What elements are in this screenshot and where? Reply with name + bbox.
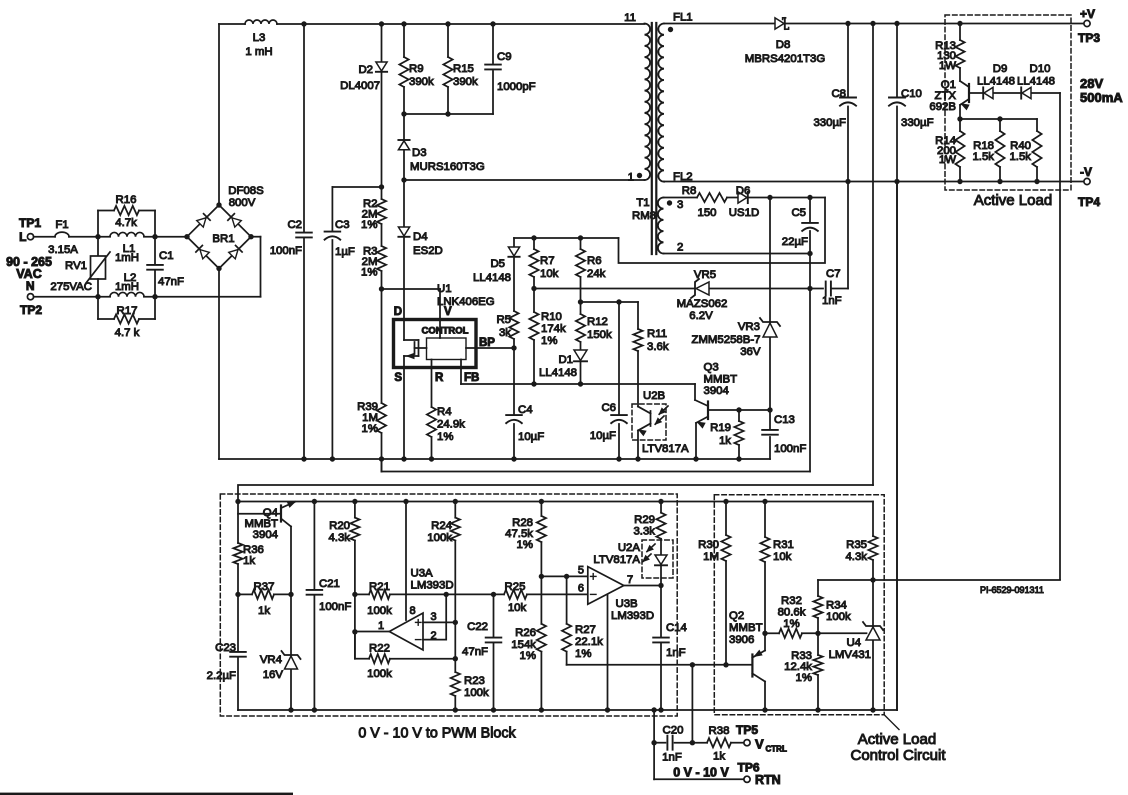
svg-text:1: 1: [378, 620, 384, 632]
svg-text:16V: 16V: [263, 669, 284, 681]
svg-text:L3: L3: [253, 32, 266, 44]
svg-text:S: S: [394, 372, 402, 384]
svg-text:80.6k: 80.6k: [778, 607, 806, 619]
svg-text:3.15A: 3.15A: [48, 244, 78, 256]
svg-text:D: D: [394, 306, 402, 318]
svg-text:3k: 3k: [499, 327, 511, 339]
svg-text:1 mH: 1 mH: [245, 46, 272, 58]
svg-text:C2: C2: [287, 219, 302, 231]
svg-text:D1: D1: [558, 354, 573, 366]
svg-text:C22: C22: [467, 621, 488, 633]
svg-text:2: 2: [431, 630, 437, 642]
svg-text:RM8: RM8: [632, 210, 656, 222]
svg-text:Active Load: Active Load: [974, 192, 1052, 209]
svg-text:D4: D4: [413, 231, 428, 243]
svg-text:3904: 3904: [704, 385, 729, 397]
svg-text:R11: R11: [647, 328, 667, 340]
svg-text:TP2: TP2: [20, 303, 42, 317]
svg-text:MAZS062: MAZS062: [677, 298, 728, 310]
svg-text:C8: C8: [831, 88, 846, 100]
svg-text:1k: 1k: [243, 555, 255, 567]
svg-text:275VAC: 275VAC: [50, 281, 92, 293]
svg-text:R31: R31: [773, 539, 794, 551]
svg-text:R35: R35: [846, 539, 867, 551]
svg-text:10k: 10k: [508, 602, 527, 614]
svg-text:VR3: VR3: [738, 321, 760, 333]
svg-text:R20: R20: [329, 520, 350, 532]
svg-text:D10: D10: [1030, 63, 1051, 75]
svg-text:28V: 28V: [1080, 76, 1103, 91]
svg-text:R23: R23: [464, 675, 485, 687]
svg-text:R27: R27: [575, 624, 596, 636]
svg-text:330µF: 330µF: [813, 117, 846, 129]
svg-text:TP5: TP5: [736, 723, 758, 737]
svg-text:U3B: U3B: [616, 598, 638, 610]
svg-text:36V: 36V: [740, 346, 761, 358]
svg-text:D5: D5: [490, 258, 505, 270]
svg-text:TP4: TP4: [1078, 195, 1100, 209]
svg-text:1µF: 1µF: [335, 246, 355, 258]
svg-text:100k: 100k: [367, 668, 392, 680]
svg-text:R22: R22: [369, 643, 390, 655]
svg-text:C3: C3: [335, 219, 350, 231]
svg-text:R19: R19: [710, 422, 731, 434]
svg-text:F1: F1: [55, 219, 68, 231]
svg-text:U1: U1: [437, 283, 452, 295]
svg-text:1%: 1%: [437, 431, 453, 443]
svg-text:2.2µF: 2.2µF: [207, 670, 236, 682]
svg-text:MMBT: MMBT: [729, 622, 763, 634]
svg-text:PI-6529-091311: PI-6529-091311: [980, 585, 1044, 595]
svg-text:U2B: U2B: [643, 390, 665, 402]
svg-text:RTN: RTN: [755, 773, 781, 787]
svg-text:U3A: U3A: [411, 568, 434, 580]
svg-text:100nF: 100nF: [319, 601, 351, 613]
svg-text:FB: FB: [464, 372, 479, 384]
svg-text:692B: 692B: [929, 101, 956, 113]
svg-text:C4: C4: [518, 404, 533, 416]
svg-text:4.7 k: 4.7 k: [115, 327, 140, 339]
svg-text:R34: R34: [826, 600, 847, 612]
svg-text:1%: 1%: [361, 219, 377, 231]
svg-text:DL4007: DL4007: [340, 80, 380, 92]
svg-text:800V: 800V: [229, 197, 256, 209]
svg-text:4.3k: 4.3k: [845, 551, 867, 563]
svg-text:24.9k: 24.9k: [437, 419, 465, 431]
svg-text:R10: R10: [541, 311, 562, 323]
svg-text:6.2V: 6.2V: [689, 310, 713, 322]
svg-text:100nF: 100nF: [774, 443, 806, 455]
svg-text:MURS160T3G: MURS160T3G: [410, 161, 485, 173]
svg-text:Q2: Q2: [729, 610, 744, 622]
svg-text:1k: 1k: [713, 751, 725, 763]
svg-text:D2: D2: [358, 64, 373, 76]
svg-text:1.5k: 1.5k: [1009, 151, 1031, 163]
svg-text:TP1: TP1: [19, 216, 41, 230]
svg-text:+V: +V: [1080, 7, 1095, 21]
svg-text:L: L: [19, 230, 26, 244]
svg-text:V: V: [755, 737, 764, 752]
svg-text:100k: 100k: [427, 532, 452, 544]
svg-text:1.5k: 1.5k: [972, 151, 994, 163]
svg-text:1%: 1%: [517, 539, 533, 551]
svg-text:1%: 1%: [575, 648, 591, 660]
svg-text:FL1: FL1: [673, 12, 693, 24]
svg-text:1M: 1M: [703, 551, 719, 563]
svg-text:R: R: [435, 372, 444, 384]
svg-text:D3: D3: [412, 147, 427, 159]
svg-text:D9: D9: [993, 63, 1008, 75]
svg-text:1%: 1%: [362, 423, 378, 435]
svg-text:U4: U4: [846, 637, 861, 649]
svg-text:R4: R4: [437, 406, 452, 418]
svg-text:R38: R38: [709, 725, 730, 737]
svg-text:2: 2: [677, 242, 683, 254]
svg-text:330µF: 330µF: [901, 117, 934, 129]
svg-text:LM393D: LM393D: [411, 580, 454, 592]
svg-text:LL4148: LL4148: [539, 367, 577, 379]
svg-text:10k: 10k: [540, 268, 559, 280]
svg-text:1W: 1W: [939, 60, 956, 72]
svg-text:R12: R12: [587, 316, 608, 328]
svg-text:R9: R9: [409, 63, 424, 75]
svg-text:1%: 1%: [361, 267, 377, 279]
svg-text:LMV431: LMV431: [829, 649, 871, 661]
svg-text:100k: 100k: [464, 687, 489, 699]
svg-text:C7: C7: [826, 268, 841, 280]
svg-text:1%: 1%: [541, 335, 557, 347]
svg-text:10µF: 10µF: [590, 430, 616, 442]
svg-text:3904: 3904: [253, 529, 278, 541]
svg-text:6: 6: [578, 583, 584, 595]
svg-text:100k: 100k: [367, 605, 392, 617]
svg-text:390k: 390k: [409, 76, 434, 88]
svg-text:LNK406EG: LNK406EG: [437, 296, 495, 308]
svg-text:0 V - 10 V: 0 V - 10 V: [673, 766, 729, 780]
svg-text:R7: R7: [540, 255, 555, 267]
svg-text:ES2D: ES2D: [413, 245, 443, 257]
svg-text:RV1: RV1: [65, 260, 87, 272]
svg-text:C5: C5: [791, 207, 806, 219]
svg-text:3: 3: [677, 199, 683, 211]
svg-text:1k: 1k: [258, 605, 270, 617]
svg-text:22.1k: 22.1k: [575, 636, 603, 648]
svg-text:LL4148: LL4148: [977, 76, 1015, 88]
svg-text:C10: C10: [901, 88, 922, 100]
svg-text:C14: C14: [666, 622, 687, 634]
svg-text:1%: 1%: [520, 650, 536, 662]
svg-text:R37: R37: [254, 581, 275, 593]
svg-text:C9: C9: [497, 51, 512, 63]
svg-text:R25: R25: [505, 581, 526, 593]
svg-text:R29: R29: [634, 514, 655, 526]
svg-text:3.3k: 3.3k: [633, 526, 655, 538]
svg-text:0 V - 10 V to PWM Block: 0 V - 10 V to PWM Block: [358, 726, 516, 742]
svg-text:US1D: US1D: [729, 207, 759, 219]
svg-text:1nF: 1nF: [662, 752, 682, 764]
svg-text:VR5: VR5: [694, 269, 716, 281]
svg-text:MMBT: MMBT: [704, 374, 738, 386]
svg-text:TP3: TP3: [1078, 31, 1100, 45]
svg-text:C23: C23: [215, 642, 236, 654]
svg-text:100nF: 100nF: [270, 245, 302, 257]
svg-text:390k: 390k: [453, 76, 478, 88]
svg-text:1: 1: [628, 172, 634, 184]
svg-text:R6: R6: [587, 255, 602, 267]
svg-text:7: 7: [627, 574, 633, 586]
svg-text:1%: 1%: [783, 618, 799, 630]
svg-text:BR1: BR1: [212, 233, 234, 245]
svg-text:C20: C20: [663, 725, 684, 737]
svg-text:D8: D8: [776, 39, 791, 51]
svg-text:1mH: 1mH: [115, 252, 139, 264]
svg-text:4.3k: 4.3k: [328, 532, 350, 544]
svg-text:Control Circuit: Control Circuit: [850, 747, 946, 764]
svg-text:1nF: 1nF: [666, 647, 686, 659]
svg-text:ZMM5258B-7: ZMM5258B-7: [691, 334, 760, 346]
svg-text:1k: 1k: [719, 435, 731, 447]
svg-text:Active Load: Active Load: [858, 731, 936, 748]
svg-text:D6: D6: [736, 185, 751, 197]
svg-text:LM393D: LM393D: [611, 610, 654, 622]
svg-text:LTV817A: LTV817A: [593, 554, 640, 566]
svg-text:R5: R5: [496, 314, 511, 326]
svg-text:22µF: 22µF: [782, 236, 808, 248]
svg-text:C21: C21: [319, 578, 340, 590]
svg-text:MBRS4201T3G: MBRS4201T3G: [745, 53, 826, 65]
svg-text:150: 150: [697, 207, 716, 219]
svg-text:3: 3: [431, 611, 437, 623]
svg-text:R30: R30: [698, 539, 719, 551]
svg-text:500mA: 500mA: [1080, 90, 1123, 105]
svg-text:150k: 150k: [587, 329, 612, 341]
svg-text:24k: 24k: [587, 268, 606, 280]
svg-text:5: 5: [578, 565, 584, 577]
svg-text:10k: 10k: [773, 551, 792, 563]
svg-text:VR4: VR4: [260, 654, 282, 666]
svg-text:-V: -V: [1080, 165, 1092, 179]
svg-text:174k: 174k: [541, 323, 566, 335]
svg-text:C1: C1: [159, 250, 174, 262]
svg-text:C13: C13: [774, 414, 795, 426]
svg-text:R17: R17: [117, 305, 138, 317]
svg-text:Q3: Q3: [704, 362, 719, 374]
svg-text:47nF: 47nF: [462, 646, 488, 658]
svg-text:LL4148: LL4148: [1017, 76, 1055, 88]
svg-text:R16: R16: [116, 194, 137, 206]
svg-text:N: N: [26, 279, 35, 293]
svg-text:1nF: 1nF: [822, 295, 842, 307]
svg-text:1mH: 1mH: [115, 281, 139, 293]
svg-text:C6: C6: [601, 402, 616, 414]
svg-text:R24: R24: [431, 520, 452, 532]
svg-text:T1: T1: [636, 197, 649, 209]
svg-text:CTRL: CTRL: [766, 745, 787, 754]
svg-text:8: 8: [409, 605, 415, 617]
svg-text:11: 11: [624, 12, 636, 24]
svg-text:R26: R26: [515, 627, 536, 639]
svg-text:47nF: 47nF: [158, 276, 184, 288]
svg-text:CONTROL: CONTROL: [422, 326, 469, 337]
svg-text:R15: R15: [453, 63, 474, 75]
svg-text:10µF: 10µF: [518, 431, 544, 443]
svg-text:4.7k: 4.7k: [115, 217, 137, 229]
svg-text:U2A: U2A: [618, 542, 641, 554]
svg-text:R8: R8: [682, 185, 697, 197]
svg-text:3906: 3906: [729, 634, 754, 646]
svg-text:LTV817A: LTV817A: [642, 443, 689, 455]
svg-text:R21: R21: [369, 581, 390, 593]
svg-text:100k: 100k: [826, 611, 851, 623]
svg-text:3.6k: 3.6k: [647, 341, 669, 353]
svg-text:1000pF: 1000pF: [497, 81, 536, 93]
svg-text:R32: R32: [781, 595, 802, 607]
svg-text:1%: 1%: [796, 672, 812, 684]
svg-text:DF08S: DF08S: [228, 185, 264, 197]
svg-text:1W: 1W: [939, 154, 956, 166]
svg-text:LL4148: LL4148: [473, 272, 511, 284]
